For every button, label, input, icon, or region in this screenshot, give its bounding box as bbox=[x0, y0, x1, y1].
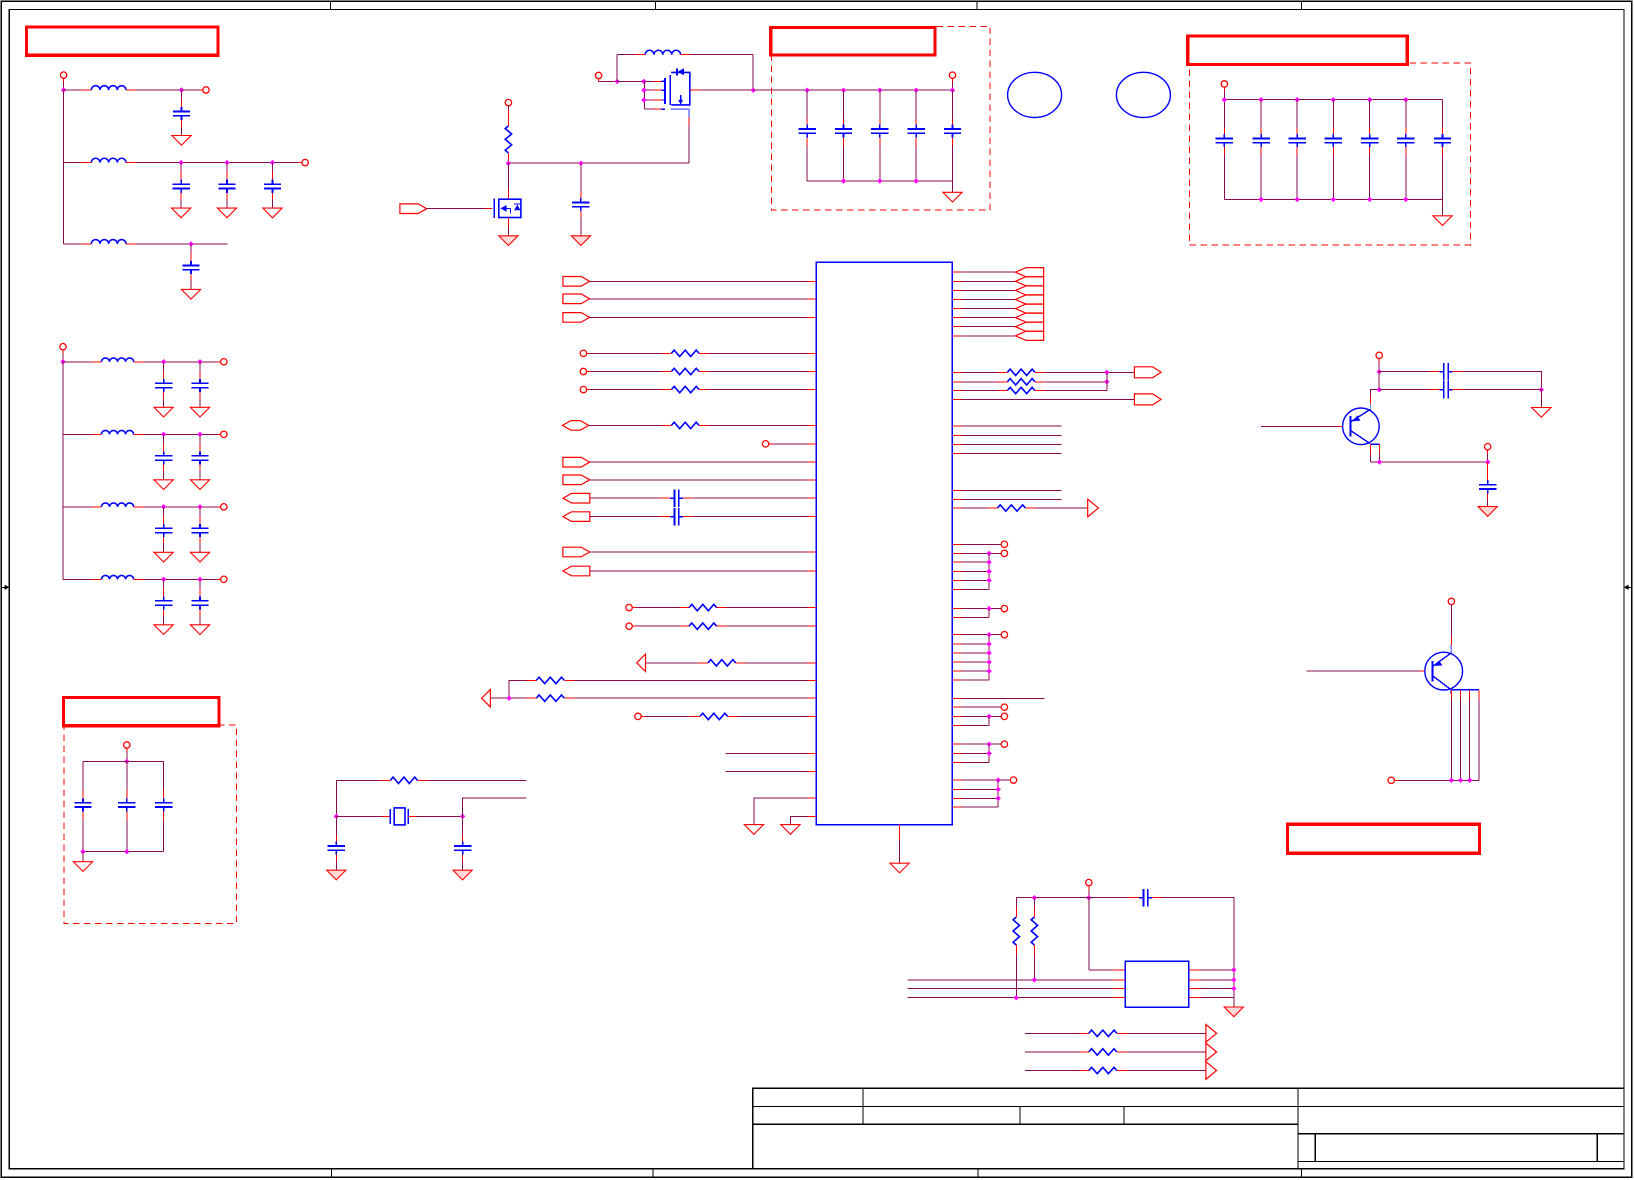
wire bbox=[144, 578, 221, 580]
wire bbox=[586, 371, 661, 373]
junction bbox=[751, 88, 756, 93]
junction bbox=[877, 178, 882, 183]
wire bbox=[952, 371, 997, 373]
wire bbox=[1394, 779, 1479, 781]
module U2 bbox=[1125, 961, 1189, 1007]
junction bbox=[1403, 197, 1408, 202]
connector net-arrow gate bbox=[400, 204, 427, 214]
wire bbox=[693, 497, 816, 499]
junction bbox=[996, 777, 1001, 782]
connector bus entry 8 bbox=[1016, 331, 1044, 340]
wire bbox=[1035, 507, 1087, 509]
connector in pin3 bbox=[563, 313, 590, 323]
wire bbox=[509, 680, 526, 698]
ground bbox=[499, 236, 518, 246]
junction bbox=[1467, 778, 1472, 783]
junction bbox=[1032, 895, 1037, 900]
junction bbox=[1403, 97, 1408, 102]
wire bbox=[64, 162, 82, 164]
junction bbox=[161, 432, 166, 437]
resistor R5 bbox=[661, 422, 709, 428]
capacitor C29 bbox=[1289, 100, 1306, 200]
wire bbox=[1233, 998, 1235, 1007]
port P28 bbox=[1010, 777, 1016, 783]
connector in pin13 bbox=[563, 547, 590, 557]
ground bbox=[327, 870, 346, 880]
wire top bus bbox=[1016, 897, 1129, 899]
inductor L5 bbox=[91, 430, 143, 434]
junction bbox=[197, 432, 202, 437]
junction bbox=[1231, 986, 1236, 991]
connector in pin10 bbox=[563, 475, 590, 485]
wire bbox=[1025, 1032, 1079, 1034]
wire bbox=[1223, 87, 1225, 100]
junction bbox=[1485, 459, 1490, 464]
wire bbox=[617, 80, 644, 82]
wire bbox=[790, 816, 816, 824]
wire bbox=[726, 752, 817, 754]
wire bbox=[952, 797, 998, 799]
junction bbox=[61, 87, 66, 92]
capacitor C6 bbox=[154, 362, 173, 417]
capacitor C22 bbox=[798, 90, 815, 181]
wire bbox=[590, 516, 660, 518]
capacitor C35 series bbox=[660, 508, 693, 525]
junction bbox=[197, 359, 202, 364]
ground bbox=[0, 0, 1, 1]
connector bus entry 6 bbox=[1016, 313, 1044, 322]
wire bbox=[746, 662, 817, 664]
ground bbox=[453, 870, 472, 880]
wire bbox=[136, 243, 228, 245]
port P9 bbox=[124, 742, 130, 748]
junction bbox=[197, 504, 202, 509]
wire bbox=[507, 106, 509, 116]
wire bbox=[907, 979, 1125, 981]
junction bbox=[641, 97, 646, 102]
junction bbox=[506, 696, 511, 701]
wire emitter fork bbox=[1370, 444, 1487, 462]
connector bus entry 7 bbox=[1016, 322, 1044, 331]
capacitor C26 bbox=[944, 90, 961, 181]
connector in pin9 bbox=[563, 457, 590, 467]
wire vertical bus bbox=[63, 90, 65, 244]
port P6 bbox=[221, 431, 227, 437]
wire bbox=[952, 570, 989, 572]
wire bottom bus bbox=[1224, 198, 1442, 200]
ground bbox=[1532, 408, 1551, 418]
wire bbox=[632, 607, 679, 609]
inductor L3 bbox=[81, 240, 136, 244]
junction bbox=[1449, 778, 1454, 783]
junction bbox=[1331, 97, 1336, 102]
port P3 bbox=[302, 159, 308, 165]
capacitor C33 bbox=[1434, 100, 1451, 200]
ellipse marker 2 bbox=[1116, 72, 1170, 117]
junction bbox=[914, 88, 919, 93]
wire vertical tie bbox=[997, 780, 999, 807]
inductor L4 bbox=[91, 358, 143, 362]
wire bbox=[709, 352, 816, 354]
wire bbox=[63, 578, 91, 580]
wire output bus bbox=[753, 89, 952, 91]
wire bbox=[1127, 1032, 1206, 1034]
junction bbox=[178, 160, 183, 165]
junction bbox=[1086, 895, 1091, 900]
capacitor C36 bbox=[454, 816, 471, 870]
resistor R20 bbox=[1079, 1049, 1127, 1055]
frame zone ticks top bbox=[331, 1, 1302, 9]
wire bbox=[952, 317, 1015, 319]
junction bbox=[1367, 97, 1372, 102]
wire bbox=[1378, 372, 1380, 390]
capacitor C32 bbox=[1397, 100, 1414, 200]
junction bbox=[1377, 369, 1382, 374]
dashed box region bbox=[1189, 63, 1470, 245]
wire bbox=[1450, 604, 1452, 645]
port P29 bbox=[1376, 352, 1382, 358]
wire bbox=[952, 561, 989, 563]
junction bbox=[124, 759, 129, 764]
title block grid bbox=[753, 1088, 1624, 1169]
wire bbox=[64, 89, 82, 91]
capacitor C36 bbox=[328, 816, 345, 870]
capacitor C16 bbox=[190, 579, 209, 634]
junction bbox=[986, 659, 991, 664]
resistor R8 bbox=[698, 660, 746, 666]
ic U1 body bbox=[816, 262, 952, 824]
port P2 bbox=[203, 87, 209, 93]
wire bbox=[693, 516, 816, 518]
junction bbox=[270, 160, 275, 165]
junction bbox=[460, 814, 465, 819]
title box heading bottom-left bbox=[63, 698, 219, 726]
wire bbox=[952, 788, 998, 790]
junction bbox=[914, 178, 919, 183]
resistor R17 bbox=[1013, 898, 1019, 998]
wire bbox=[952, 579, 989, 581]
title box heading top-middle bbox=[771, 28, 935, 56]
ellipse marker 1 bbox=[1008, 72, 1062, 117]
wire bbox=[952, 78, 954, 90]
ground bbox=[744, 825, 763, 835]
junction bbox=[161, 359, 166, 364]
capacitor C27 bbox=[1216, 100, 1233, 200]
wire bbox=[590, 479, 817, 481]
wire bbox=[63, 78, 65, 90]
wire bbox=[952, 706, 1001, 708]
wire bbox=[1162, 898, 1234, 998]
wire bbox=[952, 280, 1015, 282]
resistor R21 bbox=[1079, 1067, 1127, 1073]
transistor Q4 pnp bbox=[1425, 645, 1479, 694]
port P1 bbox=[60, 72, 66, 78]
wire bbox=[641, 715, 690, 717]
wire bbox=[126, 748, 128, 761]
dashed box region bbox=[771, 26, 990, 209]
connector out pin14 bbox=[563, 566, 590, 576]
dashed box region bbox=[64, 725, 236, 924]
connector arrowhead out 1 bbox=[1206, 1025, 1217, 1043]
junction bbox=[197, 577, 202, 582]
capacitor C5 bbox=[181, 244, 200, 299]
junction bbox=[986, 578, 991, 583]
wire bbox=[1379, 389, 1429, 391]
capacitor C7 bbox=[190, 362, 209, 417]
port P27 bbox=[1001, 741, 1007, 747]
wire bbox=[952, 507, 997, 509]
ground bbox=[1433, 216, 1452, 226]
port P26 bbox=[1001, 713, 1007, 719]
wire module right pin bbox=[1189, 988, 1234, 990]
port P14 bbox=[580, 350, 586, 356]
junction bbox=[877, 88, 882, 93]
resistor R4 bbox=[661, 386, 709, 392]
junction bbox=[188, 241, 193, 246]
capacitor C34 series bbox=[660, 490, 693, 507]
capacitor C21 bbox=[572, 163, 589, 236]
connector arrowhead right bbox=[1088, 499, 1099, 517]
wire bbox=[82, 852, 84, 862]
wire collector pin bbox=[1450, 690, 1452, 781]
port P22 bbox=[1001, 550, 1007, 556]
wire bbox=[952, 271, 1015, 273]
wire bbox=[182, 89, 203, 91]
wire bbox=[952, 761, 989, 763]
wire bbox=[574, 697, 816, 699]
junction bbox=[1377, 459, 1382, 464]
wire bbox=[952, 806, 998, 808]
port P10 bbox=[595, 72, 601, 78]
junction bbox=[1014, 995, 1019, 1000]
capacitor C25 bbox=[908, 90, 925, 181]
junction bbox=[986, 560, 991, 565]
wire bbox=[586, 352, 661, 354]
resistor R10 bbox=[526, 695, 574, 701]
connector arrowhead out 2 bbox=[1206, 1043, 1217, 1061]
wire bbox=[1127, 1051, 1206, 1053]
wire bbox=[1127, 1070, 1206, 1072]
resistor R19 bbox=[1079, 1030, 1127, 1036]
resistor R18 bbox=[1031, 898, 1037, 980]
junction bbox=[1377, 387, 1382, 392]
wire vertical tie bbox=[988, 635, 990, 680]
wire module right pin bbox=[1189, 969, 1234, 971]
capacitor C15 bbox=[154, 579, 173, 634]
wire bbox=[754, 798, 817, 825]
wire bbox=[63, 361, 91, 363]
wire bbox=[1487, 450, 1489, 462]
wire vertical tie bbox=[988, 553, 990, 589]
wire module right pin bbox=[1189, 979, 1234, 981]
wire bbox=[952, 715, 1001, 717]
wire bbox=[907, 988, 1125, 990]
wire bbox=[952, 489, 1061, 491]
ground bbox=[890, 863, 909, 873]
wire bbox=[617, 55, 635, 82]
wire bbox=[632, 625, 679, 627]
junction bbox=[179, 87, 184, 92]
wire bbox=[427, 779, 526, 781]
port P13 bbox=[1221, 81, 1227, 87]
wire bbox=[1379, 371, 1429, 373]
wire bbox=[1025, 1070, 1079, 1072]
resistor R11 bbox=[690, 713, 738, 719]
wire bbox=[507, 218, 509, 236]
wire bbox=[690, 89, 753, 91]
wire bbox=[738, 715, 817, 717]
transistor Q3 pnp bbox=[1343, 404, 1380, 445]
connector bus entry 3 bbox=[1016, 286, 1044, 295]
wire long stub bbox=[952, 697, 1044, 699]
frame center arrow left bbox=[2, 585, 10, 590]
port P25 bbox=[1001, 704, 1007, 710]
connector in pin1 bbox=[563, 277, 590, 287]
wire bbox=[952, 743, 1001, 745]
junction bbox=[1539, 387, 1544, 392]
junction bbox=[986, 742, 991, 747]
capacitor C30 bbox=[1325, 100, 1342, 200]
wire bbox=[952, 608, 1001, 610]
junction bbox=[60, 359, 65, 364]
resistor R15 bbox=[987, 505, 1035, 511]
resistor R9 bbox=[526, 677, 574, 683]
connector bidir pin7 bbox=[562, 421, 588, 431]
port P18 bbox=[626, 604, 632, 610]
wire bbox=[144, 433, 221, 435]
connector bus entry 1 bbox=[1016, 268, 1044, 277]
junction bbox=[1331, 197, 1336, 202]
capacitor C9 bbox=[154, 434, 173, 489]
port P33 bbox=[1086, 879, 1092, 885]
wire bbox=[952, 499, 1061, 501]
junction bbox=[804, 88, 809, 93]
wire bbox=[590, 298, 817, 300]
wire bbox=[1463, 372, 1542, 390]
junction bbox=[986, 714, 991, 719]
wire bbox=[590, 461, 817, 463]
capacitor C19 bbox=[118, 761, 135, 851]
wire bottom bus bbox=[807, 180, 952, 182]
port P16 bbox=[580, 386, 586, 392]
wire bbox=[1089, 898, 1126, 970]
junction bbox=[1258, 197, 1263, 202]
wire bbox=[952, 299, 1015, 301]
wire top bus bbox=[1224, 99, 1442, 101]
wire bbox=[336, 780, 380, 816]
junction bbox=[1295, 197, 1300, 202]
junction bbox=[986, 569, 991, 574]
wire bbox=[590, 551, 817, 553]
inductor L8 bbox=[635, 50, 691, 54]
wire bbox=[574, 679, 816, 681]
junction bbox=[124, 849, 129, 854]
capacitor C24 bbox=[871, 90, 888, 181]
transistor Q1 p-mosfet bbox=[645, 68, 690, 117]
resistor R3 bbox=[661, 368, 709, 374]
wire collector pin bbox=[1478, 690, 1480, 781]
resistor R14 bbox=[997, 387, 1045, 393]
frame center arrow right bbox=[1624, 585, 1632, 590]
ground bbox=[1478, 507, 1497, 517]
wire module right pin bbox=[1189, 997, 1234, 999]
wire bbox=[952, 652, 989, 654]
junction bbox=[1367, 197, 1372, 202]
capacitor C3 bbox=[217, 163, 236, 218]
junction bbox=[161, 504, 166, 509]
resistor R6 bbox=[679, 604, 727, 610]
wire bbox=[952, 308, 1015, 310]
junction bbox=[986, 641, 991, 646]
connector bus entry 2 bbox=[1016, 277, 1044, 286]
junction bbox=[996, 787, 1001, 792]
inductor L7 bbox=[91, 575, 143, 579]
capacitor C40 bbox=[1479, 462, 1496, 507]
port P7 bbox=[221, 504, 227, 510]
port P31 bbox=[1448, 598, 1454, 604]
wire bbox=[952, 453, 1061, 455]
wire base stub bbox=[1306, 670, 1424, 672]
capacitor C4 bbox=[263, 163, 282, 218]
port P4 bbox=[60, 344, 66, 350]
wire bbox=[952, 543, 1001, 545]
wire bbox=[709, 371, 816, 373]
ground bbox=[943, 192, 962, 202]
wire bbox=[64, 243, 82, 245]
wire bbox=[590, 497, 660, 499]
junction bbox=[1458, 778, 1463, 783]
wire bbox=[1045, 381, 1107, 383]
wire bbox=[490, 697, 526, 699]
ground bbox=[571, 236, 590, 246]
junction bbox=[641, 79, 646, 84]
wire bbox=[63, 506, 91, 508]
connector bus entry 5 bbox=[1016, 304, 1044, 313]
wire bbox=[136, 89, 182, 91]
capacitor C41 series bbox=[1129, 889, 1162, 906]
wire bbox=[1540, 390, 1542, 408]
ground bbox=[1224, 1007, 1243, 1017]
connector arrowhead out 3 bbox=[1206, 1062, 1217, 1080]
junction bbox=[161, 577, 166, 582]
capacitor C12 bbox=[154, 507, 173, 562]
port P12 bbox=[949, 72, 955, 78]
title box heading top-right bbox=[1188, 36, 1407, 64]
port P19 bbox=[626, 623, 632, 629]
wire bbox=[709, 389, 816, 391]
junction bbox=[1295, 97, 1300, 102]
wire bbox=[62, 350, 64, 362]
capacitor C28 bbox=[1252, 100, 1269, 200]
junction bbox=[80, 849, 85, 854]
crystal Y1 bbox=[336, 808, 462, 825]
junction bbox=[506, 161, 511, 166]
resistor R12 bbox=[997, 369, 1045, 375]
transistor Q2 n-mosfet bbox=[494, 163, 521, 218]
junction bbox=[1032, 977, 1037, 982]
wire bbox=[1463, 389, 1542, 391]
wire bbox=[1025, 1051, 1079, 1053]
junction bbox=[841, 88, 846, 93]
wire bbox=[952, 552, 1001, 554]
wire bbox=[952, 670, 989, 672]
wire bbox=[952, 588, 989, 590]
port P8 bbox=[221, 576, 227, 582]
inductor L1 bbox=[81, 86, 136, 90]
junction bbox=[1258, 97, 1263, 102]
junction bbox=[641, 88, 646, 93]
ground bbox=[781, 825, 800, 835]
